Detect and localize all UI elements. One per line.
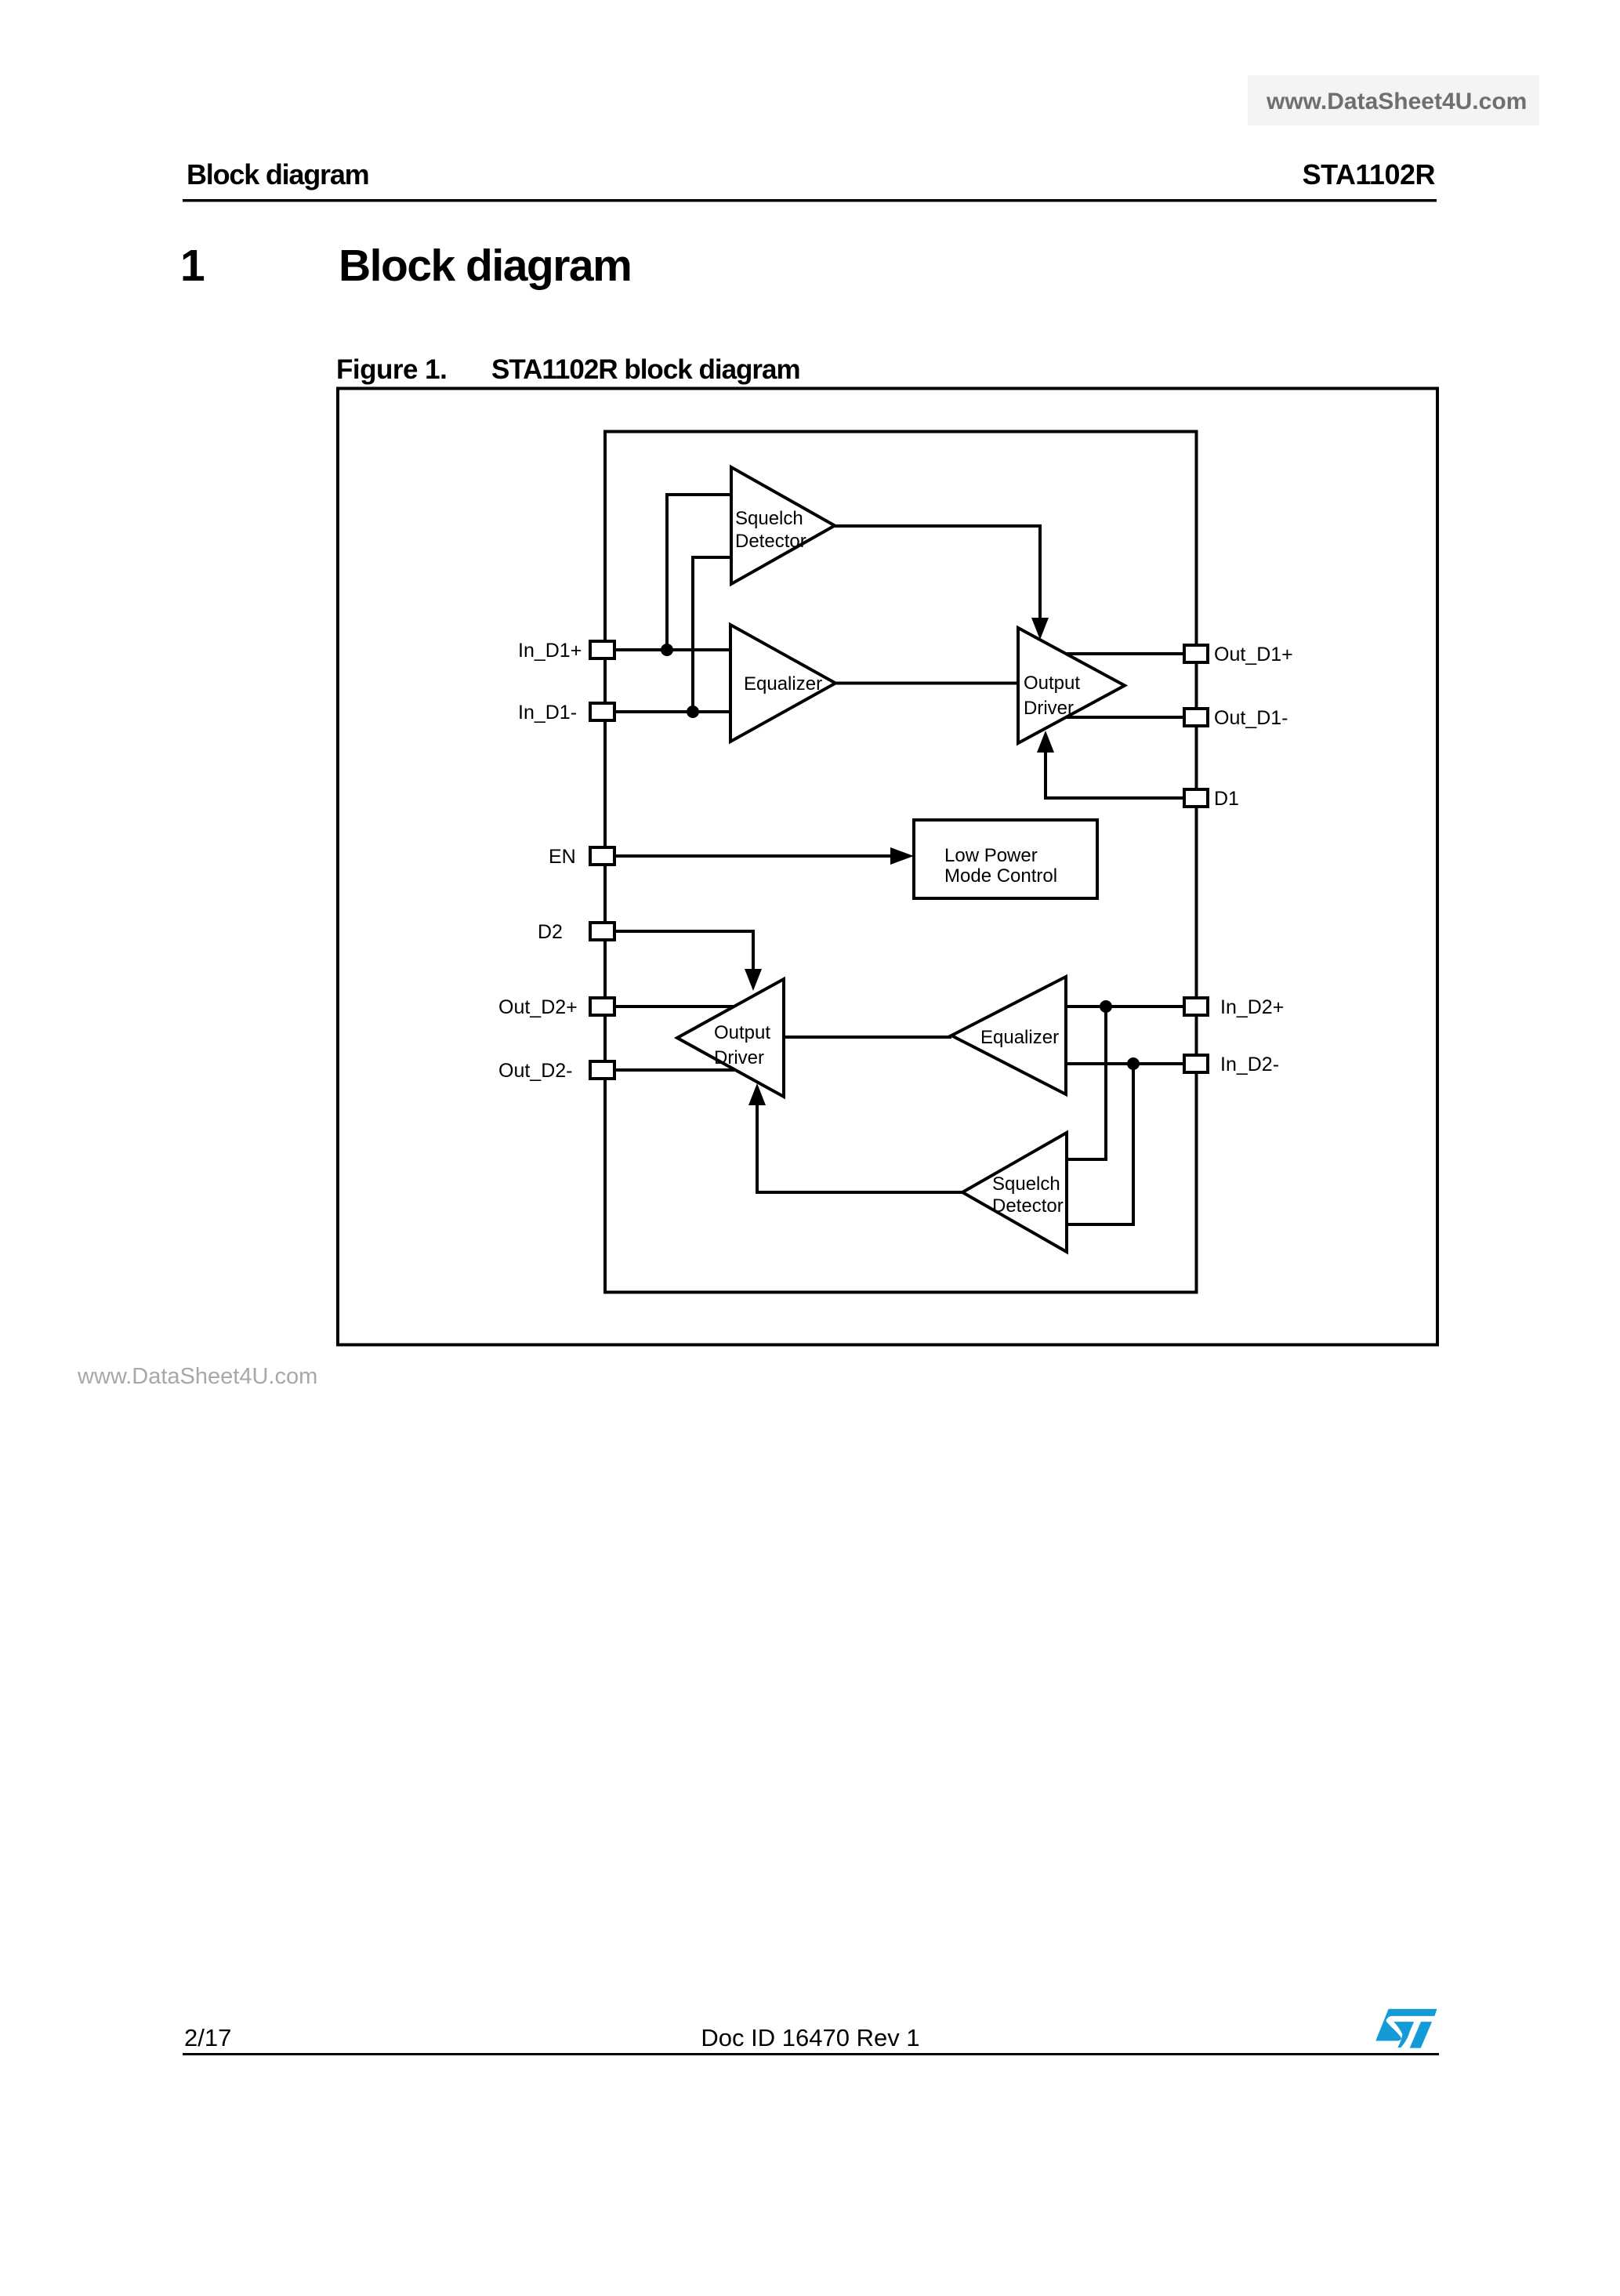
wire EN to low power mode control — [616, 854, 893, 858]
svg-text:Detector: Detector — [992, 1195, 1064, 1217]
svg-text:D2: D2 — [538, 921, 563, 943]
junction node on In_D1+ — [661, 644, 673, 656]
pin Out_D1- — [1184, 707, 1288, 729]
arrowhead D1 into output driver 1 — [1037, 731, 1054, 753]
svg-text:Low Power: Low Power — [944, 845, 1038, 866]
arrowhead squelch 2 into output driver 2 — [748, 1083, 766, 1105]
footer rule — [183, 2053, 1439, 2055]
svg-text:Squelch: Squelch — [735, 508, 803, 529]
wire squelch detector 1 output to output driver 1 — [835, 526, 1040, 621]
svg-text:www.DataSheet4U.com: www.DataSheet4U.com — [1266, 89, 1527, 114]
pin In_D2- — [1184, 1054, 1279, 1075]
wire output driver 1 to Out_D1+ — [1050, 652, 1183, 655]
watermark top right background — [1248, 75, 1539, 125]
svg-text:EN: EN — [549, 846, 576, 868]
svg-text:2/17: 2/17 — [184, 2024, 231, 2051]
wire output driver 2 to Out_D2- — [616, 1068, 745, 1072]
wire In_D2+ to equalizer 2 — [1066, 1005, 1183, 1008]
svg-text:Squelch: Squelch — [992, 1173, 1060, 1195]
wire In_D1+ branch up to squelch detector 1 — [667, 495, 731, 650]
watermark bottom left — [77, 1364, 317, 1389]
pin In_D1+ — [518, 640, 614, 662]
svg-text:Equalizer: Equalizer — [744, 673, 822, 695]
wire D2 to output driver 2 — [616, 931, 753, 972]
pin D2 — [538, 921, 614, 943]
arrowhead squelch 1 into output driver 1 — [1031, 618, 1049, 640]
output driver 1 — [1018, 628, 1125, 743]
header rule — [183, 199, 1437, 202]
junction node on In_D1- — [687, 705, 699, 718]
header title left — [187, 158, 368, 190]
arrowhead EN into low power mode control — [890, 847, 914, 865]
wire output driver 2 to Out_D2+ — [616, 1005, 745, 1008]
svg-text:Doc ID 16470 Rev 1: Doc ID 16470 Rev 1 — [701, 2024, 919, 2051]
svg-text:Block diagram: Block diagram — [187, 158, 368, 190]
squelch detector 2 — [962, 1133, 1067, 1252]
pin EN — [549, 846, 614, 868]
figure caption — [336, 354, 800, 385]
svg-text:Detector: Detector — [735, 531, 806, 552]
equalizer 2 — [951, 977, 1066, 1094]
watermark top right text — [1266, 89, 1527, 114]
svg-text:In_D1-: In_D1- — [518, 702, 577, 724]
wire output driver 1 to Out_D1- — [1050, 716, 1183, 719]
wire equalizer 1 output to output driver 1 — [835, 682, 1018, 685]
pin Out_D2+ — [498, 996, 614, 1018]
figure frame — [338, 389, 1437, 1345]
footer page number — [184, 2024, 231, 2051]
svg-text:Driver: Driver — [714, 1047, 764, 1068]
wire In_D2+ branch down to squelch detector 2 — [1067, 1007, 1106, 1159]
wire In_D2- branch down to squelch detector 2 — [1067, 1064, 1133, 1224]
header part number right — [1303, 158, 1436, 190]
wire squelch detector 2 output to output driver 2 — [757, 1104, 962, 1192]
wire In_D1- branch up to squelch detector 1 — [693, 557, 731, 712]
equalizer 1 — [730, 625, 835, 742]
svg-text:Out_D1+: Out_D1+ — [1214, 644, 1293, 666]
svg-text:STA1102R: STA1102R — [1303, 158, 1436, 190]
pin Out_D1+ — [1184, 644, 1293, 666]
wire equalizer 2 output to output driver 2 — [784, 1036, 951, 1039]
svg-text:Figure 1.: Figure 1. — [336, 354, 447, 385]
ST logo — [1375, 2009, 1437, 2048]
junction node on In_D2+ — [1100, 1000, 1112, 1013]
svg-text:In_D2+: In_D2+ — [1220, 996, 1284, 1018]
junction node on In_D2- — [1127, 1057, 1140, 1070]
pin Out_D2- — [498, 1060, 614, 1082]
footer doc id — [701, 2024, 919, 2051]
wire In_D1- to equalizer 1 — [616, 710, 730, 713]
svg-text:Equalizer: Equalizer — [980, 1027, 1059, 1048]
squelch detector 1 — [731, 467, 835, 584]
svg-text:In_D2-: In_D2- — [1220, 1054, 1279, 1075]
svg-text:D1: D1 — [1214, 788, 1239, 810]
svg-text:Mode Control: Mode Control — [944, 865, 1057, 887]
svg-text:STA1102R block diagram: STA1102R block diagram — [491, 354, 800, 385]
wire In_D2- to equalizer 2 — [1066, 1062, 1183, 1065]
chip boundary box — [605, 432, 1197, 1293]
svg-text:Out_D2-: Out_D2- — [498, 1060, 572, 1082]
svg-text:In_D1+: In_D1+ — [518, 640, 582, 662]
svg-text:1: 1 — [180, 241, 205, 291]
pin In_D2+ — [1184, 996, 1284, 1018]
wire D1 to output driver 1 — [1046, 751, 1183, 798]
pin D1 — [1184, 788, 1239, 810]
pin In_D1- — [518, 702, 614, 724]
svg-text:www.DataSheet4U.com: www.DataSheet4U.com — [77, 1364, 317, 1389]
svg-text:Block diagram: Block diagram — [339, 241, 631, 291]
section title — [339, 241, 631, 291]
svg-text:Out_D1-: Out_D1- — [1214, 707, 1288, 729]
svg-text:Output: Output — [714, 1022, 770, 1043]
wire In_D1+ to equalizer 1 — [616, 648, 730, 651]
svg-text:Out_D2+: Out_D2+ — [498, 996, 578, 1018]
section number 1 — [180, 241, 205, 291]
svg-text:Driver: Driver — [1024, 698, 1074, 719]
svg-text:Output: Output — [1024, 673, 1080, 694]
low power mode control block — [914, 820, 1097, 898]
arrowhead D2 into output driver 2 — [745, 969, 762, 991]
output driver 2 — [677, 979, 784, 1097]
